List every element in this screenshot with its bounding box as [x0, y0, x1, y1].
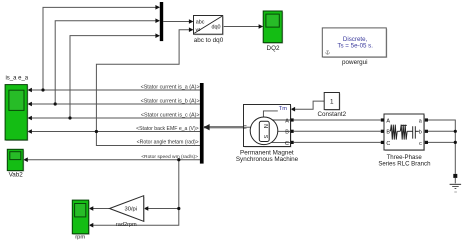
- svg-text:Series RLC Branch: Series RLC Branch: [378, 160, 430, 167]
- svg-text:is_a e_a: is_a e_a: [5, 76, 28, 82]
- svg-text:B: B: [386, 130, 390, 136]
- svg-text:b: b: [419, 130, 422, 136]
- svg-text:A: A: [285, 118, 289, 124]
- svg-text:<Rotor speed wm (rad/s)>: <Rotor speed wm (rad/s)>: [141, 154, 198, 160]
- svg-text:1: 1: [330, 99, 334, 106]
- svg-text:abc to dq0: abc to dq0: [194, 37, 224, 44]
- svg-text:30/pi: 30/pi: [125, 207, 138, 213]
- svg-text:dq0: dq0: [212, 25, 221, 31]
- svg-text:N: N: [262, 124, 268, 128]
- svg-text:rpm: rpm: [75, 235, 85, 241]
- svg-text:B: B: [285, 130, 289, 136]
- svg-text:<Stator current is_c (A)>: <Stator current is_c (A)>: [141, 112, 200, 118]
- svg-text:wt: wt: [196, 27, 201, 32]
- svg-text:a: a: [419, 118, 422, 124]
- svg-text:<Rotor angle thetam (rad)>: <Rotor angle thetam (rad)>: [137, 140, 199, 146]
- svg-text:A: A: [386, 118, 390, 124]
- svg-text:Synchronous Machine: Synchronous Machine: [236, 156, 299, 163]
- svg-text:C: C: [285, 141, 289, 147]
- svg-text:c: c: [419, 141, 422, 147]
- svg-text:Vab2: Vab2: [9, 172, 24, 179]
- svg-text:powergui: powergui: [342, 59, 368, 66]
- svg-text:<Stator back EMF e_a (V)>: <Stator back EMF e_a (V)>: [136, 126, 199, 132]
- svg-text:C: C: [386, 141, 390, 147]
- svg-text:Tm: Tm: [279, 106, 287, 112]
- svg-text:m: m: [243, 125, 249, 129]
- svg-text:rad2rpm: rad2rpm: [116, 222, 137, 228]
- svg-text:DQ2: DQ2: [267, 45, 280, 52]
- svg-text:<Stator current is_b (A)>: <Stator current is_b (A)>: [141, 98, 200, 104]
- svg-text:S: S: [262, 135, 268, 139]
- svg-text:abc: abc: [196, 20, 205, 26]
- svg-text:<Stator current is_a (A)>: <Stator current is_a (A)>: [141, 84, 200, 90]
- svg-text:Ts = 5e-05 s.: Ts = 5e-05 s.: [337, 42, 373, 49]
- svg-text:Constant2: Constant2: [317, 111, 346, 118]
